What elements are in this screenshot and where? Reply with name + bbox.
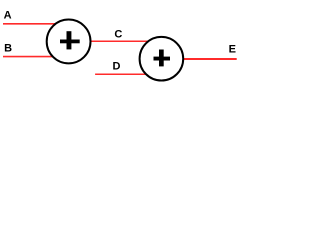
svg-text:E: E (229, 44, 236, 56)
svg-text:A: A (4, 9, 12, 21)
svg-text:D: D (112, 60, 120, 72)
svg-text:C: C (114, 28, 122, 40)
svg-text:B: B (4, 42, 12, 54)
